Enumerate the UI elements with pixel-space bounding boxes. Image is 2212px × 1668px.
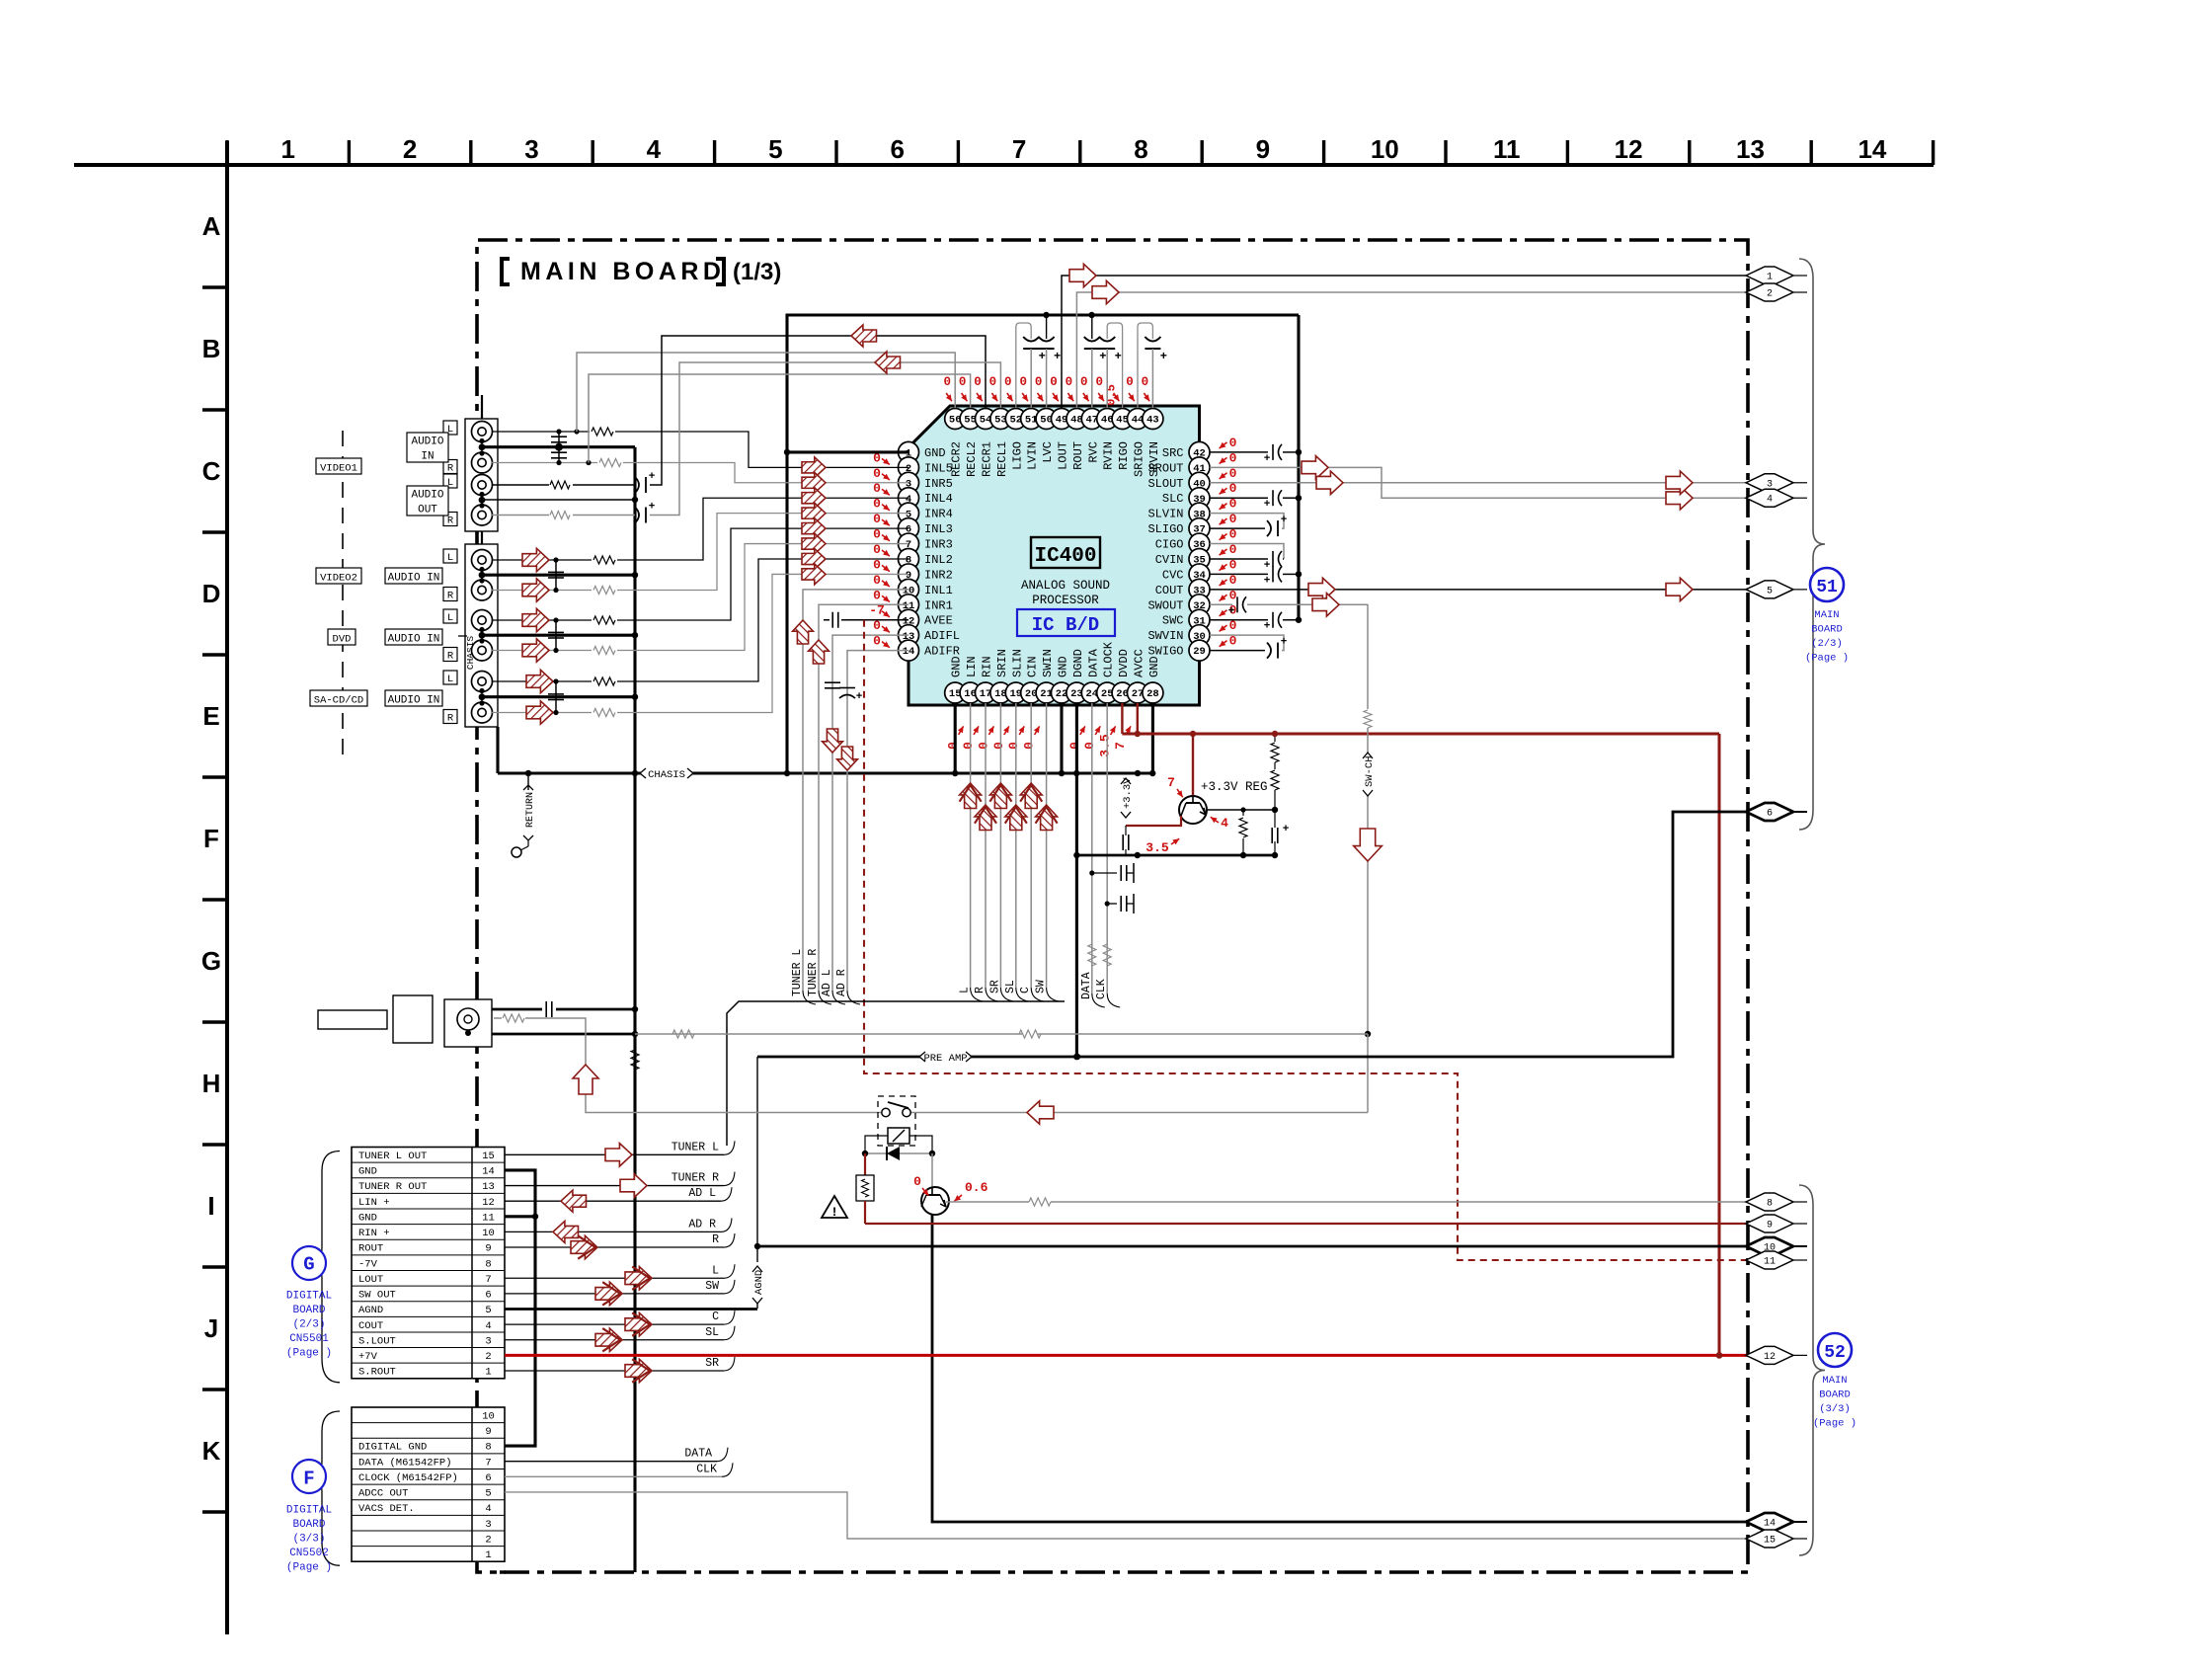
svg-text:MAIN: MAIN bbox=[1822, 1375, 1847, 1387]
svg-text:4: 4 bbox=[485, 1503, 491, 1515]
svg-text:SW: SW bbox=[705, 1280, 719, 1293]
wire GND pin15 down bbox=[954, 703, 957, 773]
wire SLOUT pin40 to connector 3 bbox=[1210, 471, 1748, 494]
svg-text:(Page ): (Page ) bbox=[1805, 653, 1849, 665]
jack VIDEO1 AUDIO OUT R bbox=[472, 505, 493, 525]
svg-text:0: 0 bbox=[991, 742, 1006, 750]
wire AD L vertical from pin13 bbox=[821, 635, 908, 1004]
svg-text:+: + bbox=[856, 691, 863, 703]
wire INL3 from dvd L bbox=[492, 518, 908, 632]
diode D relay bbox=[862, 1147, 935, 1160]
transistor Q 3.3V regulator bbox=[1179, 734, 1207, 824]
svg-text:+: + bbox=[1264, 499, 1271, 511]
capacitor on SRC pin42 bbox=[1210, 444, 1302, 465]
wire tuner return route bbox=[757, 812, 1748, 1060]
svg-text:8: 8 bbox=[485, 1442, 491, 1454]
svg-text:TUNER R: TUNER R bbox=[807, 949, 820, 996]
red annotation 0.6 on Q2 bbox=[954, 1180, 987, 1201]
svg-text:4: 4 bbox=[1767, 495, 1773, 506]
svg-text:DATA: DATA bbox=[1086, 648, 1100, 677]
svg-text:5: 5 bbox=[485, 1305, 491, 1316]
svg-text:+: + bbox=[1264, 575, 1271, 587]
svg-text:0: 0 bbox=[1006, 742, 1021, 750]
svg-text:8: 8 bbox=[485, 1258, 491, 1270]
svg-text:2: 2 bbox=[1767, 289, 1773, 300]
wire AVCC pin27 to rail bbox=[1137, 703, 1139, 734]
wire AVEE -7V dashed maroon bbox=[864, 620, 1748, 1260]
red annotation 4 on regulator bbox=[1211, 816, 1228, 831]
svg-text:K: K bbox=[202, 1436, 221, 1466]
signal arrow down SW-CH bbox=[1354, 829, 1382, 861]
wire INR3 from dvd R bbox=[492, 533, 908, 662]
svg-text:R: R bbox=[447, 713, 454, 725]
resistor on chassis bus bbox=[631, 1050, 639, 1070]
svg-text:AD L: AD L bbox=[688, 1187, 716, 1200]
svg-text:+: + bbox=[1228, 605, 1235, 617]
jack VIDEO1 AUDIO IN R bbox=[472, 452, 493, 473]
IC400 top pins 56-43 with labels bbox=[945, 409, 1163, 478]
svg-text:0: 0 bbox=[1142, 375, 1149, 389]
svg-text:(1/3): (1/3) bbox=[733, 259, 781, 285]
wire DVDD pin26 to rail bbox=[1121, 703, 1123, 734]
jack VIDEO1 AUDIO IN L bbox=[472, 422, 493, 442]
svg-text:14: 14 bbox=[1764, 1519, 1776, 1530]
svg-text:MAIN: MAIN bbox=[1814, 609, 1839, 621]
svg-text:LOUT: LOUT bbox=[358, 1274, 383, 1286]
connector CN5502 table bbox=[352, 1407, 505, 1561]
wire pin45 bridge to pin46 cap bbox=[1107, 323, 1122, 408]
wire pin52 bridge to pin51 cap bbox=[1016, 323, 1031, 408]
svg-text:CN5502: CN5502 bbox=[289, 1548, 329, 1559]
svg-text:0: 0 bbox=[1067, 742, 1082, 750]
svg-text:+: + bbox=[1281, 637, 1288, 649]
connector block J2 input jacks bbox=[458, 531, 498, 727]
connector point 9 bbox=[1746, 1215, 1807, 1232]
svg-text:CLOCK (M61542FP): CLOCK (M61542FP) bbox=[358, 1472, 458, 1484]
svg-text:9: 9 bbox=[1256, 134, 1270, 164]
svg-text:7: 7 bbox=[1012, 134, 1026, 164]
svg-text:L: L bbox=[447, 552, 453, 564]
svg-text:TUNER R OUT: TUNER R OUT bbox=[358, 1181, 427, 1193]
svg-text:DGND: DGND bbox=[1071, 649, 1085, 677]
capacitor C sacd pair bbox=[548, 678, 564, 715]
wire AVEE pin12 decoupling bbox=[824, 612, 908, 628]
svg-text:GND: GND bbox=[924, 446, 946, 460]
svg-text:SW-CH: SW-CH bbox=[1364, 755, 1376, 787]
wire CN5501 pin2 +7V to connector 12 bbox=[505, 1352, 1748, 1359]
svg-text:BOARD: BOARD bbox=[1819, 1390, 1851, 1401]
wire CN5501 pin14 GND bbox=[505, 1170, 538, 1446]
svg-text:(3/3): (3/3) bbox=[292, 1533, 325, 1545]
wire CN5501 pin13 TUNER R bbox=[505, 1172, 735, 1198]
connector point 15 bbox=[1746, 1530, 1807, 1548]
node CHASIS flag bbox=[640, 767, 693, 781]
svg-text:SWVIN: SWVIN bbox=[1147, 629, 1183, 643]
svg-text:DATA: DATA bbox=[1080, 972, 1093, 999]
wire CN5501 pin4 C bbox=[505, 1311, 735, 1336]
svg-text:0: 0 bbox=[873, 573, 881, 588]
wire Q2 emitter to connector 8 bbox=[946, 1198, 1748, 1206]
IC400 bottom pins 15-28 with labels bbox=[945, 641, 1163, 703]
wire pin50 to gnd line bbox=[1046, 315, 1048, 339]
red 0V annotations on IC right pins bbox=[1220, 436, 1237, 649]
svg-text:6: 6 bbox=[890, 134, 904, 164]
svg-text:DIGITAL: DIGITAL bbox=[286, 1504, 332, 1516]
svg-text:TUNER L: TUNER L bbox=[791, 949, 804, 996]
connector point 10 bbox=[1746, 1237, 1807, 1255]
wire CN5501 pin5 AGND bbox=[505, 1308, 757, 1311]
wire Q2 collector to connector 14 bbox=[932, 1214, 1748, 1522]
wire INR5 from video1 R bbox=[492, 459, 908, 494]
svg-text:VIDEO2: VIDEO2 bbox=[320, 572, 357, 584]
svg-text:D: D bbox=[202, 579, 221, 608]
svg-text:0: 0 bbox=[913, 1174, 921, 1189]
svg-text:8: 8 bbox=[1767, 1199, 1773, 1210]
connector point 3 bbox=[1746, 474, 1807, 492]
wire AVCC power rail +7V bbox=[1122, 731, 1719, 737]
svg-text:R: R bbox=[447, 516, 454, 527]
svg-text:SWC: SWC bbox=[1162, 614, 1184, 628]
svg-text:0: 0 bbox=[873, 481, 881, 496]
svg-text:6: 6 bbox=[1767, 809, 1773, 820]
svg-text:+: + bbox=[1264, 453, 1271, 465]
svg-text:0: 0 bbox=[1066, 375, 1073, 389]
jack VIDEO1 AUDIO OUT L bbox=[472, 475, 493, 496]
jack ground chain dots bbox=[479, 438, 486, 706]
border ruler left line bbox=[225, 141, 229, 1634]
svg-text:RECR1: RECR1 bbox=[981, 441, 994, 477]
svg-text:28: 28 bbox=[1146, 688, 1159, 700]
svg-text:7: 7 bbox=[1167, 775, 1175, 790]
svg-text:SRIGO: SRIGO bbox=[1133, 441, 1146, 477]
svg-text:6: 6 bbox=[485, 1472, 491, 1484]
capacitor on SLC pin39 bbox=[1210, 490, 1302, 511]
antenna jack FM bbox=[444, 999, 492, 1047]
svg-text:11: 11 bbox=[1764, 1257, 1776, 1268]
svg-text:AD R: AD R bbox=[688, 1218, 716, 1231]
fusible resistor FR bbox=[856, 1153, 874, 1224]
connector point 6 bbox=[1746, 803, 1807, 821]
svg-text:C: C bbox=[1019, 987, 1032, 993]
node AGND flag on R bus bbox=[751, 1246, 765, 1309]
svg-text:G: G bbox=[303, 1254, 314, 1276]
svg-text:11: 11 bbox=[482, 1212, 495, 1224]
wire INL2 from sacd L bbox=[492, 549, 908, 693]
resistor divider on regulator output bbox=[1206, 731, 1279, 813]
svg-text:(Page ): (Page ) bbox=[286, 1348, 332, 1360]
svg-text:0: 0 bbox=[1022, 742, 1037, 750]
svg-text:DATA: DATA bbox=[684, 1448, 712, 1461]
capacitor output regulator bbox=[1272, 810, 1290, 858]
svg-text:3.5: 3.5 bbox=[1145, 840, 1169, 855]
wire CN5502 pin5 ADCC to connector 15 bbox=[505, 1492, 1748, 1539]
svg-text:ADIFL: ADIFL bbox=[924, 629, 960, 643]
svg-text:INL2: INL2 bbox=[924, 553, 953, 567]
svg-text:OUT: OUT bbox=[418, 505, 437, 516]
svg-text:1: 1 bbox=[485, 1367, 491, 1379]
svg-text:LOUT: LOUT bbox=[1057, 441, 1070, 470]
svg-text:AUDIO IN: AUDIO IN bbox=[388, 694, 440, 706]
border ruler top line bbox=[74, 163, 1934, 167]
op-amp U IC400 analog sound processor body bbox=[908, 406, 1200, 705]
wire REC out left loop 1 bbox=[577, 353, 955, 432]
wire CLK vertical from pin25 bbox=[1095, 703, 1120, 1007]
wire SROUT pin41 to connector 4 bbox=[1210, 456, 1748, 510]
svg-text:3: 3 bbox=[485, 1335, 491, 1347]
svg-text:CHASIS: CHASIS bbox=[648, 769, 685, 781]
svg-text:INL5: INL5 bbox=[924, 461, 953, 475]
svg-text:15: 15 bbox=[482, 1151, 495, 1162]
svg-text:3.5: 3.5 bbox=[1098, 734, 1113, 757]
svg-text:12: 12 bbox=[1615, 134, 1643, 164]
svg-text:SLC: SLC bbox=[1162, 492, 1184, 506]
wire INL5 from video1 L bbox=[492, 428, 908, 478]
svg-text:ANALOG SOUND: ANALOG SOUND bbox=[1021, 579, 1110, 593]
wire INR4 from video2 R bbox=[492, 503, 908, 601]
label AUDIO IN dvd bbox=[385, 629, 442, 645]
svg-text:INR5: INR5 bbox=[924, 477, 953, 491]
wire SLVIN SLIGO loop pins 38 37 bbox=[1210, 514, 1288, 536]
svg-text:(Page ): (Page ) bbox=[286, 1561, 332, 1573]
wire R bus vertical bbox=[754, 1057, 760, 1249]
svg-text:CIN: CIN bbox=[1026, 656, 1040, 677]
svg-text:GND: GND bbox=[358, 1212, 377, 1224]
jack SA-CD AUDIO IN L bbox=[472, 672, 493, 692]
brace main board 2/3 group bbox=[1799, 259, 1825, 830]
svg-text:BOARD: BOARD bbox=[292, 1305, 325, 1316]
wire AUDIO OUT ground bbox=[484, 497, 638, 503]
svg-text:5: 5 bbox=[1767, 586, 1773, 596]
svg-text:ADCC OUT: ADCC OUT bbox=[358, 1488, 408, 1500]
capacitor on AD L line bbox=[825, 682, 840, 688]
svg-text:A: A bbox=[202, 211, 221, 241]
decoupling caps on IC top pins 51 50 47 46 43 bbox=[1023, 337, 1167, 408]
red voltage annotations on IC bottom pins bbox=[946, 726, 1131, 756]
signal arrows up into IC bottom pins bbox=[960, 783, 1058, 831]
svg-text:0: 0 bbox=[1229, 436, 1237, 450]
svg-text:0: 0 bbox=[946, 742, 961, 750]
svg-text:0: 0 bbox=[976, 742, 990, 750]
svg-text:INR4: INR4 bbox=[924, 508, 953, 521]
svg-text:0: 0 bbox=[1050, 375, 1058, 389]
source group labels column bbox=[342, 431, 344, 760]
svg-text:7: 7 bbox=[1113, 742, 1128, 750]
svg-text:0: 0 bbox=[1095, 375, 1103, 389]
connector point 1 bbox=[1746, 267, 1807, 284]
svg-text:BOARD: BOARD bbox=[1811, 624, 1843, 636]
jack DVD AUDIO IN R bbox=[472, 640, 493, 661]
svg-text:15: 15 bbox=[1764, 1536, 1776, 1547]
svg-text:CN5501: CN5501 bbox=[289, 1333, 329, 1345]
red annotation 3.5 on regulator bbox=[1145, 838, 1179, 855]
svg-text:SLIGO: SLIGO bbox=[1147, 522, 1183, 536]
svg-text:2: 2 bbox=[485, 1351, 491, 1363]
svg-text:13: 13 bbox=[482, 1181, 495, 1193]
svg-text:S.ROUT: S.ROUT bbox=[358, 1367, 396, 1379]
svg-text:COUT: COUT bbox=[1155, 584, 1184, 597]
wire IC pin1 GND bbox=[787, 450, 908, 453]
svg-text:GND: GND bbox=[1057, 656, 1070, 677]
svg-text:+: + bbox=[1099, 350, 1106, 363]
svg-text:AUDIO IN: AUDIO IN bbox=[388, 633, 440, 645]
signal arrows down on AD lines bbox=[823, 729, 858, 770]
svg-text:RVIN: RVIN bbox=[1102, 441, 1116, 470]
wire TUNER L route to preamp bbox=[727, 1001, 1065, 1146]
capacitor on DATA line bbox=[1089, 863, 1134, 883]
svg-text:IC400: IC400 bbox=[1034, 545, 1096, 568]
wire VIDEO2 ground bbox=[482, 572, 638, 578]
wire CN5501 pin1 SR bbox=[505, 1357, 735, 1383]
capacitor C video1 pair bbox=[551, 429, 567, 465]
wire REC bus vertical right bbox=[1043, 312, 1299, 620]
svg-text:+: + bbox=[1054, 350, 1061, 363]
wire GND vertical to chassis rail bbox=[785, 452, 788, 773]
svg-text:+3.3V: +3.3V bbox=[1122, 777, 1134, 809]
svg-text:AGND: AGND bbox=[358, 1305, 383, 1316]
svg-text:INL1: INL1 bbox=[924, 584, 953, 597]
wire GND loop top bbox=[784, 315, 1299, 455]
svg-text:R: R bbox=[974, 987, 987, 993]
svg-text:AGND: AGND bbox=[753, 1270, 765, 1295]
IC400 right pins 42-29 with labels bbox=[1147, 441, 1210, 661]
svg-text:RIN: RIN bbox=[981, 656, 994, 677]
svg-text:2: 2 bbox=[485, 1534, 491, 1546]
svg-text:+: + bbox=[1264, 560, 1271, 572]
connector CN5501 brace and G label bbox=[286, 1152, 340, 1383]
jack DVD AUDIO IN L bbox=[472, 610, 493, 631]
svg-text:INL4: INL4 bbox=[924, 492, 953, 506]
wire AD R vertical from pin14 bbox=[835, 651, 908, 1004]
svg-text:RVC: RVC bbox=[1086, 441, 1100, 463]
svg-text:!: ! bbox=[830, 1205, 838, 1220]
transistor Q2 switch driver bbox=[921, 1153, 949, 1215]
svg-text:R: R bbox=[447, 651, 454, 663]
svg-text:SLIN: SLIN bbox=[1010, 649, 1024, 677]
warning triangle bbox=[822, 1196, 847, 1220]
svg-text:TUNER L: TUNER L bbox=[671, 1141, 719, 1153]
wire DVD ground bbox=[482, 632, 638, 638]
signal arrow up antenna line bbox=[573, 1065, 598, 1094]
svg-text:0: 0 bbox=[873, 557, 881, 572]
svg-text:4: 4 bbox=[647, 134, 662, 164]
svg-text:CLK: CLK bbox=[696, 1463, 717, 1475]
svg-text:INL3: INL3 bbox=[924, 522, 953, 536]
svg-text:0: 0 bbox=[873, 542, 881, 557]
wire CIGO CVIN loop pins 36 35 bbox=[1210, 544, 1284, 572]
relay RY coil bbox=[865, 1128, 932, 1153]
resistor to ground regulator bbox=[1239, 807, 1247, 858]
svg-text:LVIN: LVIN bbox=[1026, 441, 1040, 470]
svg-text:-7V: -7V bbox=[358, 1258, 378, 1270]
svg-text:11: 11 bbox=[1493, 134, 1521, 164]
wire SW-CH vertical bbox=[1362, 604, 1376, 1113]
svg-text:COUT: COUT bbox=[358, 1320, 383, 1332]
svg-text:SROUT: SROUT bbox=[1147, 461, 1183, 475]
antenna connector body bbox=[393, 995, 433, 1043]
svg-text:RIGO: RIGO bbox=[1117, 441, 1131, 470]
svg-text:0: 0 bbox=[943, 375, 951, 389]
wire INL4 from video2 L bbox=[492, 488, 908, 572]
L R jack designators bbox=[443, 421, 457, 725]
svg-text:9: 9 bbox=[485, 1426, 491, 1438]
svg-text:0: 0 bbox=[873, 466, 881, 481]
connector point 14 bbox=[1746, 1513, 1807, 1531]
svg-text:SW: SW bbox=[1035, 980, 1048, 993]
svg-text:CVIN: CVIN bbox=[1155, 553, 1184, 567]
svg-text:14: 14 bbox=[482, 1166, 495, 1178]
capacitor C dvd pair bbox=[548, 617, 564, 653]
svg-text:RECL2: RECL2 bbox=[965, 441, 979, 477]
wire pin47 to gnd line bbox=[1091, 315, 1093, 339]
switch S1 in dashed box bbox=[878, 1096, 915, 1146]
svg-text:LIGO: LIGO bbox=[1010, 441, 1024, 470]
svg-text:R: R bbox=[447, 463, 454, 475]
svg-text:DIGITAL: DIGITAL bbox=[286, 1291, 332, 1303]
red annotation 7 on regulator bbox=[1167, 775, 1183, 797]
wire CN5501 pin10 AD R bbox=[505, 1218, 732, 1242]
svg-text:10: 10 bbox=[482, 1228, 495, 1239]
label AUDIO IN video1 bbox=[407, 433, 448, 463]
wire regulator ground return bbox=[1076, 852, 1275, 858]
svg-text:L: L bbox=[447, 674, 453, 685]
svg-text:5: 5 bbox=[485, 1488, 491, 1500]
label VIDEO2 bbox=[316, 568, 361, 584]
wire REC out left loop 2 bbox=[589, 374, 971, 463]
capacitor on SWC pin31 bbox=[1210, 612, 1302, 633]
svg-text:4: 4 bbox=[485, 1320, 491, 1332]
svg-text:SR: SR bbox=[705, 1357, 719, 1370]
svg-text:CVC: CVC bbox=[1162, 568, 1184, 582]
signal arrows on tuner lines bbox=[793, 620, 829, 664]
svg-text:+: + bbox=[649, 471, 656, 483]
svg-text:SLVIN: SLVIN bbox=[1147, 508, 1183, 521]
svg-text:CIGO: CIGO bbox=[1155, 538, 1184, 552]
svg-text:+3.3V REG: +3.3V REG bbox=[1201, 780, 1268, 794]
svg-text:B: B bbox=[202, 334, 221, 363]
svg-text:0: 0 bbox=[873, 497, 881, 512]
svg-text:VACS DET.: VACS DET. bbox=[358, 1503, 415, 1515]
svg-text:H: H bbox=[202, 1069, 221, 1098]
svg-text:+: + bbox=[1115, 350, 1122, 363]
svg-text:SWIN: SWIN bbox=[1041, 649, 1055, 677]
svg-text:9: 9 bbox=[1767, 1221, 1773, 1231]
svg-text:DATA (M61542FP): DATA (M61542FP) bbox=[358, 1457, 452, 1469]
wire CN5502 pin6 CLK bbox=[505, 1463, 733, 1476]
svg-text:SL: SL bbox=[705, 1326, 719, 1339]
svg-text:INR1: INR1 bbox=[924, 598, 953, 612]
wire CN5501 pin3 SL bbox=[505, 1326, 735, 1352]
title MAIN BOARD (1/3) bbox=[502, 258, 781, 285]
svg-text:2: 2 bbox=[403, 134, 417, 164]
svg-text:TUNER R: TUNER R bbox=[671, 1172, 719, 1185]
svg-text:G: G bbox=[201, 946, 221, 976]
node 51 MAIN BOARD 2/3 bbox=[1805, 568, 1849, 665]
svg-text:ROUT: ROUT bbox=[1071, 441, 1085, 470]
svg-text:6: 6 bbox=[485, 1290, 491, 1302]
svg-text:SL: SL bbox=[1004, 980, 1017, 993]
svg-text:SA-CD/CD: SA-CD/CD bbox=[314, 694, 363, 706]
ruler row ticks and letters bbox=[201, 211, 227, 1512]
svg-text:CLOCK: CLOCK bbox=[1102, 641, 1116, 677]
svg-text:0: 0 bbox=[1004, 375, 1012, 389]
svg-text:+: + bbox=[1283, 824, 1290, 835]
svg-text:0: 0 bbox=[1126, 375, 1134, 389]
wire SWVIN SWIGO loop pins 30 29 bbox=[1210, 635, 1288, 658]
svg-text:GND: GND bbox=[358, 1166, 377, 1178]
svg-text:PRE AMP: PRE AMP bbox=[923, 1053, 967, 1065]
wire CN5501 pin6 SW bbox=[505, 1280, 735, 1306]
wire R signal to connector 10 bbox=[757, 1245, 1748, 1248]
